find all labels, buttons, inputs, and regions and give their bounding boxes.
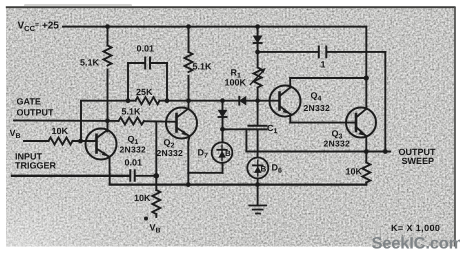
capacitor 0.01 (trigger coupling) bbox=[130, 170, 156, 180]
transistor Q2 bbox=[166, 108, 197, 185]
junction D6 / ground rail bbox=[255, 182, 260, 187]
label D6 bbox=[261, 163, 283, 175]
capacitor 0.01 (feedback, top) bbox=[128, 58, 167, 101]
diode (pointing left, to Q2 collector node) bbox=[239, 97, 257, 105]
resistor 5.1K (Q2 collector load) bbox=[185, 27, 193, 109]
label Q1 2N332 bbox=[120, 134, 147, 155]
label R1 100K bbox=[225, 68, 247, 88]
node A 25K left bbox=[126, 98, 131, 103]
wire second rail (to cap 1) bbox=[258, 51, 386, 53]
transistor Q4 bbox=[270, 86, 301, 123]
node line Q1 base to Q2 collector (y=100.7) bbox=[81, 100, 136, 102]
svg-text:0.01: 0.01 bbox=[125, 158, 143, 168]
transistor Q1 bbox=[86, 129, 117, 185]
transistor Q3 bbox=[346, 108, 376, 152]
svg-text:2N332: 2N332 bbox=[324, 139, 351, 149]
wire node to Q4 base bbox=[258, 100, 280, 102]
junction Q2 collector bbox=[186, 98, 191, 103]
label Q3 2N332 bbox=[324, 129, 351, 149]
node B 25K right bbox=[165, 98, 170, 103]
svg-text:OUTPUT: OUTPUT bbox=[17, 108, 55, 118]
ground rail bbox=[110, 184, 367, 186]
svg-text:2N332: 2N332 bbox=[120, 145, 147, 155]
svg-text:5.1K: 5.1K bbox=[80, 58, 100, 68]
label 5.1K R load Q2 bbox=[193, 62, 213, 72]
label 0.01 top bbox=[137, 44, 155, 54]
junction trigger cap / Q2 base drop bbox=[154, 173, 160, 179]
svg-text:5.1K: 5.1K bbox=[122, 107, 142, 117]
wire Q2 base drop bbox=[155, 121, 157, 190]
resistor 10K (sweep load) bbox=[362, 152, 370, 185]
svg-text:2N332: 2N332 bbox=[304, 103, 331, 113]
breakdown diode D6 bbox=[247, 158, 268, 185]
label OUTPUT SWEEP bbox=[399, 147, 437, 166]
junction Vcc rail / top diode bbox=[255, 24, 260, 29]
label cap 1 bbox=[321, 60, 326, 70]
svg-text:TRIGGER: TRIGGER bbox=[15, 161, 57, 171]
capacitor 1 bbox=[319, 47, 327, 58]
label VB input bbox=[10, 128, 21, 140]
label 10K bias bbox=[134, 193, 151, 203]
junction Vcc rail / 5.1K Q2 load bbox=[186, 24, 191, 29]
svg-text:K= X 1,000: K= X 1,000 bbox=[391, 223, 440, 233]
junction Q3 emitter / output line bbox=[364, 149, 369, 154]
junction Vcc rail / 5.1K Q1 load bbox=[105, 24, 110, 29]
label C1 bbox=[267, 123, 278, 135]
svg-text:100K: 100K bbox=[225, 78, 247, 88]
output sweep line bbox=[246, 151, 390, 153]
label VB bias bbox=[150, 223, 161, 235]
wire Vcc drop to Q3 collector bbox=[365, 27, 367, 109]
wire to Q2 base bbox=[144, 120, 177, 123]
watermark SeekIC.com bbox=[372, 235, 460, 253]
ground bbox=[249, 185, 266, 214]
junction D7 top / sweep feed bbox=[220, 127, 225, 132]
potentiometer R1 100K bbox=[250, 52, 265, 101]
label Vcc = +25 bbox=[18, 21, 60, 34]
junction Q1 base node bbox=[78, 139, 83, 144]
label Q2 2N332 bbox=[157, 138, 184, 159]
wire D7 node to output sweep line bbox=[223, 129, 247, 151]
label D7 bbox=[198, 148, 232, 160]
svg-text:SeekIC.com: SeekIC.com bbox=[372, 235, 460, 253]
label 5.1K coupling bbox=[122, 107, 142, 117]
wire 25K to diode bbox=[160, 100, 240, 102]
diode (top, above R1) bbox=[254, 27, 262, 52]
junction diode / second rail bbox=[255, 50, 260, 55]
svg-text:B: B bbox=[261, 165, 267, 174]
junction Q2 emitter / ground rail bbox=[186, 182, 191, 187]
Vcc top rail bbox=[63, 26, 366, 28]
label 10K input bbox=[52, 126, 69, 136]
junction Q1 collector / gate output bbox=[105, 118, 110, 123]
junction Vcc drop / Q4 collector line bbox=[364, 75, 369, 80]
junction diode branch D7 bbox=[220, 98, 225, 103]
label GATE OUTPUT bbox=[17, 97, 55, 118]
gate output line bbox=[14, 119, 119, 122]
resistor 5.1K (Q1 collector load) bbox=[104, 27, 112, 132]
svg-text:10K: 10K bbox=[52, 126, 69, 136]
wire right drop to output bbox=[384, 52, 386, 152]
svg-text:2N332: 2N332 bbox=[157, 148, 184, 158]
wire Q4 emitter to Q3 base bbox=[290, 122, 356, 124]
label INPUT TRIGGER bbox=[15, 152, 57, 171]
svg-text:5.1K: 5.1K bbox=[193, 62, 213, 72]
svg-text:B: B bbox=[225, 149, 231, 158]
label 10K sweep load bbox=[346, 167, 363, 177]
resistor 25K bbox=[136, 97, 160, 104]
input trigger line bbox=[12, 175, 129, 177]
resistor 10K (to VB bias) bbox=[152, 190, 160, 217]
svg-text:10K: 10K bbox=[346, 167, 363, 177]
svg-text:0.01: 0.01 bbox=[137, 44, 155, 54]
label 0.01 trigger bbox=[125, 158, 143, 168]
diode (Q2 collector to D7) bbox=[219, 101, 227, 130]
node VB terminal bbox=[144, 217, 148, 221]
label 5.1K R load Q1 bbox=[80, 58, 100, 68]
capacitor C1 bbox=[249, 101, 267, 158]
wire Q4 collector to Vcc drop bbox=[290, 78, 366, 88]
svg-text:10K: 10K bbox=[134, 193, 151, 203]
junction cap 1 drop / output line bbox=[383, 149, 388, 154]
svg-text:VCC= +25: VCC= +25 bbox=[18, 21, 60, 34]
resistor 10K (VB to Q1 base) bbox=[24, 138, 97, 145]
svg-text:SWEEP: SWEEP bbox=[402, 156, 435, 166]
svg-text:25K: 25K bbox=[136, 87, 153, 97]
label Q4 2N332 bbox=[304, 91, 331, 114]
label K = X 1,000 bbox=[391, 223, 440, 233]
svg-text:GATE: GATE bbox=[17, 97, 41, 107]
junction R1 / C1 / Q4 base bbox=[255, 98, 260, 103]
label 25K bbox=[136, 87, 153, 97]
breakdown diode D7 bbox=[188, 129, 232, 173]
resistor 5.1K (Q1 collector to Q2 base) bbox=[119, 118, 144, 125]
svg-text:1: 1 bbox=[321, 60, 326, 70]
wire node A down to Q1 base bbox=[80, 101, 82, 141]
